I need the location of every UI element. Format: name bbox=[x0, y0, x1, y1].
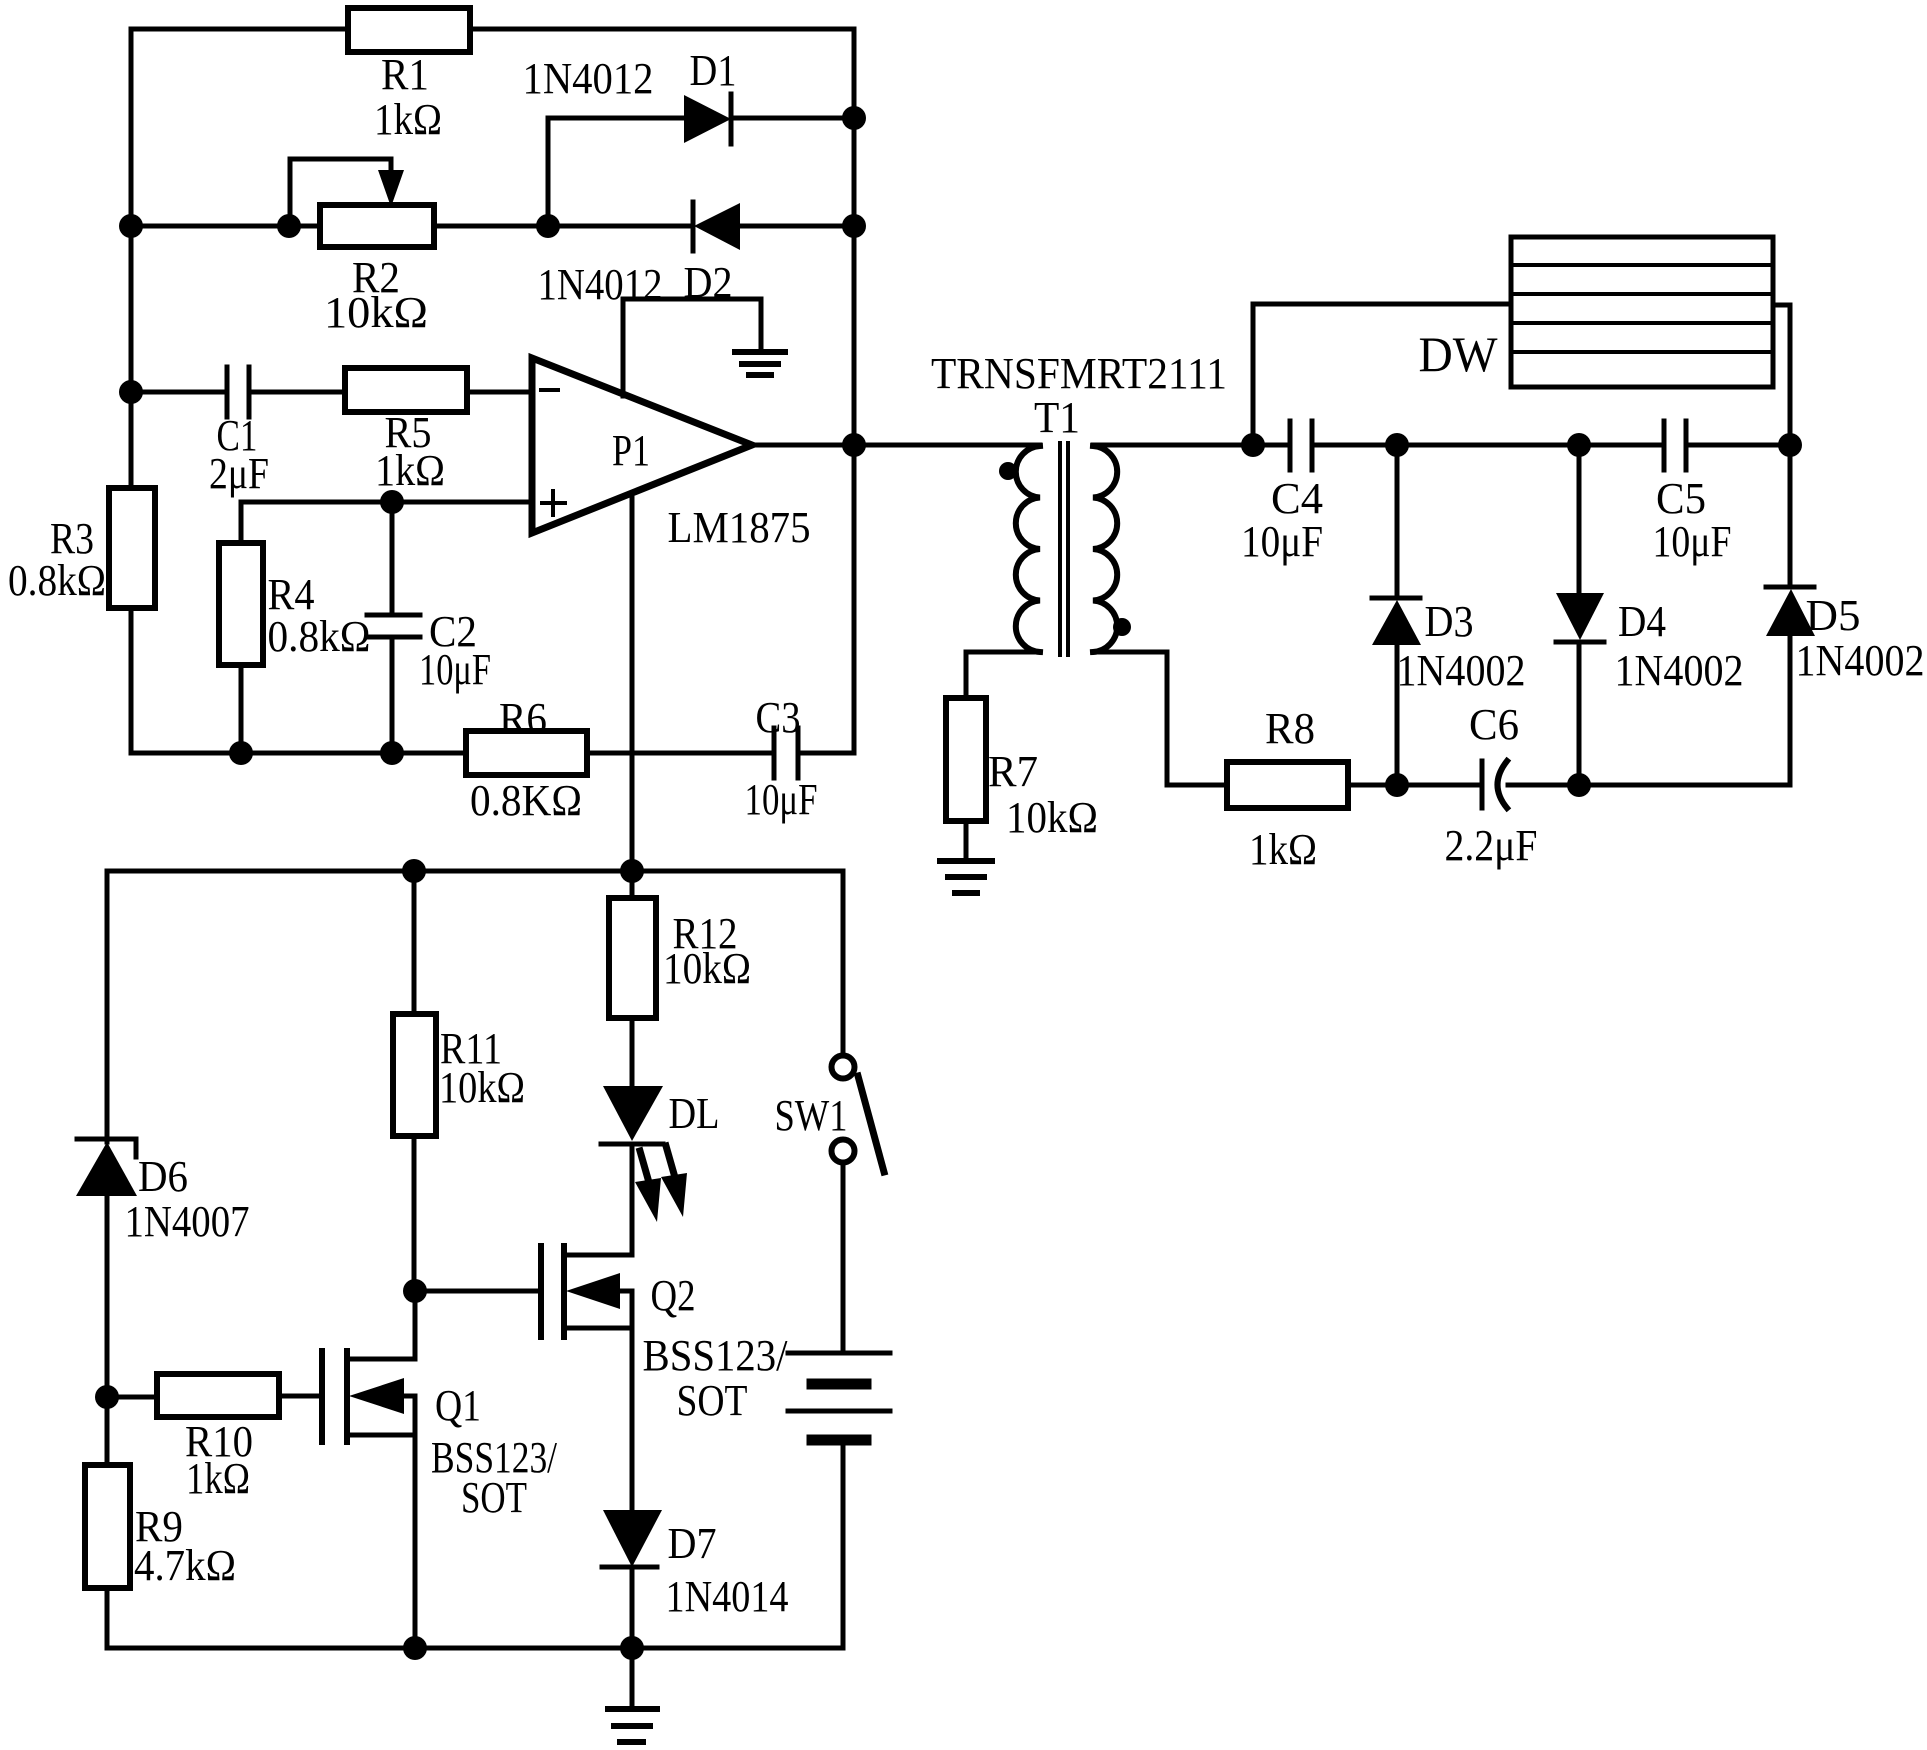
resistor R6 bbox=[466, 731, 587, 775]
svg-text:1N4002: 1N4002 bbox=[1796, 636, 1925, 685]
op-amp P1 plus sign bbox=[542, 501, 565, 505]
svg-text:C3: C3 bbox=[756, 693, 801, 742]
node junction D7 / bottom rail bbox=[620, 1636, 644, 1660]
node junction Q1 drain / Q2 gate bbox=[403, 1279, 427, 1303]
capacitor C2 plates bbox=[367, 613, 420, 618]
LED DL triangle bbox=[603, 1086, 663, 1141]
wire bottom rail bbox=[107, 1646, 843, 1651]
op-amp P1 minus sign bbox=[541, 388, 558, 392]
wire op-amp bottom pin down bbox=[630, 493, 635, 871]
svg-text:P1: P1 bbox=[612, 426, 650, 475]
diode D2 triangle bbox=[694, 203, 740, 250]
svg-text:D1: D1 bbox=[690, 46, 737, 95]
wire SW1 to battery bbox=[841, 1163, 846, 1353]
resistor R5 bbox=[345, 368, 467, 412]
switch SW1 top contact bbox=[832, 1056, 855, 1079]
svg-text:0.8kΩ: 0.8kΩ bbox=[268, 612, 371, 661]
wire bottom-section top rail bbox=[107, 869, 843, 874]
svg-text:D2: D2 bbox=[684, 258, 733, 307]
node junction C2 / noninverting row bbox=[380, 490, 404, 514]
wire D7 to bottom rail bbox=[630, 1567, 635, 1648]
wire R4 top lead bbox=[239, 502, 244, 543]
wire battery to bottom rail bbox=[841, 1440, 846, 1648]
svg-text:1N4012: 1N4012 bbox=[538, 260, 663, 309]
wire op-amp top pin to ground bbox=[623, 299, 761, 396]
wire C1 to R5 bbox=[249, 390, 345, 395]
wire C6 to D5 bottom bbox=[1508, 783, 1790, 788]
LED DL cathode bar bbox=[601, 1142, 663, 1147]
diode D7 cathode bar bbox=[602, 1565, 657, 1570]
svg-text:0.8KΩ: 0.8KΩ bbox=[470, 776, 582, 825]
wire R10 row bbox=[107, 1395, 157, 1400]
diode D6 cathode bar bbox=[77, 1139, 136, 1157]
transistor Q1 gate bar bbox=[319, 1351, 325, 1442]
svg-text:DW: DW bbox=[1419, 326, 1499, 382]
svg-text:10μF: 10μF bbox=[1653, 517, 1732, 566]
wire left rail below R3 bbox=[129, 608, 134, 753]
wire feedback row left bbox=[131, 751, 466, 756]
wire D5 bottom lead bbox=[1788, 636, 1793, 785]
wire Q1 drain node to Q2 gate bbox=[415, 1289, 541, 1294]
svg-text:2μF: 2μF bbox=[209, 449, 269, 498]
node junction D5 / main row bbox=[1778, 433, 1802, 457]
node junction D4 / main row bbox=[1567, 433, 1591, 457]
wire D2 to right rail bbox=[740, 224, 854, 229]
wire noninverting row bbox=[241, 500, 532, 505]
resistor R8 bbox=[1227, 762, 1348, 808]
wire R2 wiper loop bbox=[290, 159, 391, 226]
svg-text:R7: R7 bbox=[988, 747, 1038, 796]
svg-text:1N4002: 1N4002 bbox=[1397, 646, 1526, 695]
svg-text:4.7kΩ: 4.7kΩ bbox=[134, 1541, 236, 1590]
svg-text:10μF: 10μF bbox=[745, 775, 818, 824]
diode D3 cathode bar bbox=[1372, 596, 1420, 601]
svg-text:10kΩ: 10kΩ bbox=[324, 288, 428, 337]
transistor Q1 arrow link bbox=[404, 1396, 415, 1435]
wire DW branch right bbox=[1773, 305, 1790, 445]
transistor Q1 source stub bbox=[347, 1433, 415, 1438]
load DW internal lines bbox=[1511, 263, 1773, 267]
svg-text:10kΩ: 10kΩ bbox=[1006, 793, 1098, 842]
svg-text:SOT: SOT bbox=[461, 1473, 527, 1522]
svg-text:10μF: 10μF bbox=[1241, 517, 1323, 566]
switch SW1 lever bbox=[858, 1076, 884, 1172]
resistor R4 bbox=[219, 543, 263, 665]
diode D4 triangle bbox=[1556, 593, 1604, 640]
svg-text:0.8kΩ: 0.8kΩ bbox=[8, 556, 106, 605]
svg-text:1kΩ: 1kΩ bbox=[186, 1454, 250, 1503]
wire R5 to op-amp inverting input bbox=[467, 390, 532, 395]
wire primary bottom to R7 bbox=[966, 652, 1040, 698]
wire D3 top lead bbox=[1395, 445, 1400, 598]
svg-text:10kΩ: 10kΩ bbox=[439, 1063, 525, 1112]
svg-text:C6: C6 bbox=[1469, 700, 1519, 749]
wire C2 bottom lead bbox=[390, 637, 395, 753]
wire D1 row left bbox=[548, 116, 684, 121]
load DW box bbox=[1511, 237, 1773, 387]
svg-text:LM1875: LM1875 bbox=[668, 503, 811, 552]
transistor Q2 channel bar bbox=[561, 1246, 567, 1337]
node junction left rail / C1 row bbox=[119, 380, 143, 404]
switch SW1 bottom contact bbox=[832, 1140, 855, 1163]
diode D2 cathode bar bbox=[691, 202, 696, 251]
svg-text:DL: DL bbox=[669, 1089, 720, 1138]
diode D5 cathode bar bbox=[1766, 585, 1814, 590]
wire top rail right of R1 bbox=[470, 29, 854, 753]
node junction R12 / top rail bbox=[620, 859, 644, 883]
resistor R10 bbox=[157, 1374, 279, 1417]
node junction C2 / feedback row bbox=[380, 741, 404, 765]
capacitor C6 left plate bbox=[1480, 761, 1485, 808]
node junction D4 / bottom row bbox=[1567, 773, 1591, 797]
wire Q1 source to bottom rail bbox=[413, 1435, 418, 1648]
svg-text:10kΩ: 10kΩ bbox=[663, 944, 751, 993]
wire top rail left of R1 bbox=[131, 29, 347, 488]
wire D4 bottom lead bbox=[1577, 642, 1582, 785]
capacitor C1 plates bbox=[225, 367, 230, 417]
capacitor C5 plates bbox=[1662, 421, 1667, 470]
transistor Q1 channel bar bbox=[344, 1351, 350, 1442]
resistor R9 bbox=[85, 1465, 130, 1588]
transistor Q2 drain stub bbox=[564, 1144, 632, 1255]
wire R6 to C3 bbox=[587, 751, 774, 756]
svg-text:R6: R6 bbox=[499, 694, 547, 743]
resistor R7 bbox=[946, 698, 986, 821]
wire R7 to ground bbox=[964, 821, 969, 861]
wire Q2 source to D7 bbox=[630, 1328, 635, 1510]
wire D1 branch vertical bbox=[546, 118, 551, 226]
transformer T1 secondary phase dot bbox=[1113, 618, 1131, 636]
resistor R12 bbox=[609, 898, 656, 1018]
node junction D1 / right rail bbox=[842, 106, 866, 130]
transistor Q2 arrow bbox=[566, 1273, 620, 1309]
wire op-amp output to transformer bbox=[752, 443, 1040, 448]
svg-text:D6: D6 bbox=[138, 1152, 188, 1201]
transformer T1 core bbox=[1058, 443, 1062, 655]
svg-text:1kΩ: 1kΩ bbox=[374, 95, 442, 144]
arrow R2 wiper head bbox=[378, 170, 404, 207]
transistor Q1 arrow bbox=[349, 1378, 404, 1414]
diode D3 triangle bbox=[1372, 600, 1421, 645]
svg-text:R8: R8 bbox=[1265, 704, 1315, 753]
diode D6 triangle bbox=[76, 1142, 137, 1196]
wire C2 top lead bbox=[390, 502, 395, 615]
node junction R10 / left column bbox=[95, 1385, 119, 1409]
resistor R3 bbox=[109, 488, 155, 608]
transistor Q2 source stub bbox=[564, 1326, 632, 1331]
capacitor C4 plates bbox=[1288, 421, 1293, 470]
wire D1 row right bbox=[731, 116, 854, 121]
svg-text:10μF: 10μF bbox=[419, 645, 491, 694]
wire D4 top lead bbox=[1577, 445, 1582, 593]
diode D7 triangle bbox=[603, 1510, 662, 1567]
wire secondary bottom to R8 bbox=[1093, 652, 1227, 785]
ground op-amp bbox=[735, 349, 785, 355]
wire DL to Q2 drain bbox=[630, 1144, 635, 1255]
resistor R1 bbox=[348, 8, 470, 52]
svg-text:BSS123/: BSS123/ bbox=[643, 1331, 789, 1380]
transistor Q1 drain stub bbox=[347, 1291, 415, 1359]
transistor Q2 arrow link bbox=[620, 1291, 632, 1328]
op-amp P1 triangle bbox=[532, 358, 752, 533]
svg-text:1N4012: 1N4012 bbox=[523, 54, 654, 103]
node junction D2 / right rail bbox=[842, 214, 866, 238]
wire R2 row middle to D2 bbox=[434, 224, 693, 229]
wire DW branch left bbox=[1253, 304, 1511, 445]
svg-text:1N4002: 1N4002 bbox=[1615, 646, 1744, 695]
diode D1 triangle bbox=[684, 95, 731, 143]
node junction Q1 source / bottom rail bbox=[403, 1636, 427, 1660]
resistor R11 bbox=[393, 1014, 436, 1136]
ground R7 bbox=[940, 858, 992, 864]
wire R12 top lead bbox=[630, 871, 635, 898]
svg-text:Q2: Q2 bbox=[651, 1271, 696, 1320]
node junction D3 / bottom row bbox=[1385, 773, 1409, 797]
node junction D1 branch / R2 row bbox=[536, 214, 560, 238]
node junction R4 / feedback row bbox=[229, 741, 253, 765]
node junction left rail / R2 row bbox=[119, 214, 143, 238]
node junction D3 / main row bbox=[1385, 433, 1409, 457]
svg-text:SOT: SOT bbox=[677, 1376, 748, 1425]
svg-text:C4: C4 bbox=[1271, 474, 1323, 523]
svg-text:SW1: SW1 bbox=[775, 1091, 848, 1140]
wire C3 to right rail bbox=[798, 751, 854, 756]
wire D3 bottom lead bbox=[1395, 645, 1400, 785]
wire R9 bottom lead bbox=[105, 1588, 110, 1648]
node junction wiper / R2 row bbox=[277, 214, 301, 238]
wire R11 to Q1 drain node bbox=[412, 1136, 417, 1291]
LED DL arrows bbox=[640, 1151, 650, 1186]
transformer T1 primary winding bbox=[1016, 446, 1040, 652]
wire C5 to D5 node bbox=[1686, 443, 1790, 448]
svg-text:1kΩ: 1kΩ bbox=[1249, 825, 1317, 874]
wire bottom ground lead bbox=[630, 1648, 635, 1709]
potentiometer R2 body bbox=[320, 205, 434, 247]
svg-text:C5: C5 bbox=[1656, 474, 1706, 523]
wire D5 top lead bbox=[1788, 445, 1793, 587]
capacitor C3 plates bbox=[772, 728, 777, 778]
diode D5 triangle bbox=[1766, 589, 1815, 636]
svg-text:D5: D5 bbox=[1806, 591, 1861, 640]
ground bottom bbox=[608, 1706, 657, 1712]
diode D4 cathode bar bbox=[1556, 640, 1604, 645]
svg-text:1N4007: 1N4007 bbox=[125, 1197, 250, 1246]
wire D6 to R10 node bbox=[105, 1196, 110, 1465]
wire C4 to D3 node bbox=[1312, 443, 1664, 448]
diode D1 cathode bar bbox=[729, 94, 734, 144]
wire R11 top lead bbox=[412, 871, 417, 1014]
svg-text:D3: D3 bbox=[1425, 597, 1474, 646]
wire R2 row left bbox=[131, 224, 320, 229]
wire SW1 top lead bbox=[841, 871, 846, 1054]
wire R4 bottom lead bbox=[239, 665, 244, 753]
wire R12 to DL bbox=[630, 1018, 635, 1086]
wire R10 to Q1 gate bbox=[279, 1394, 322, 1399]
svg-text:D4: D4 bbox=[1618, 597, 1666, 646]
transformer T1 primary phase dot bbox=[999, 462, 1017, 480]
svg-text:R1: R1 bbox=[381, 50, 429, 99]
transistor Q2 gate bar bbox=[538, 1246, 544, 1337]
svg-text:2.2μF: 2.2μF bbox=[1445, 821, 1538, 870]
svg-text:T1: T1 bbox=[1034, 393, 1080, 442]
wire left column to D6 bbox=[105, 871, 110, 1142]
svg-text:TRNSFMRT2111: TRNSFMRT2111 bbox=[931, 349, 1227, 398]
svg-text:Q1: Q1 bbox=[435, 1381, 481, 1430]
battery BT plates bbox=[788, 1351, 890, 1356]
transformer T1 secondary winding bbox=[1093, 446, 1117, 652]
capacitor C6 curved plate bbox=[1498, 761, 1508, 808]
node junction R11 / top rail bbox=[402, 859, 426, 883]
svg-text:1N4014: 1N4014 bbox=[666, 1572, 789, 1621]
wire C1 row left bbox=[131, 390, 227, 395]
wire secondary top to C4 bbox=[1093, 443, 1290, 448]
node junction output / right rail bbox=[842, 433, 866, 457]
svg-text:D7: D7 bbox=[668, 1519, 717, 1568]
node junction DW branch / main row bbox=[1241, 433, 1265, 457]
wire R8 to C6 bbox=[1348, 783, 1482, 788]
svg-text:1kΩ: 1kΩ bbox=[375, 446, 445, 495]
